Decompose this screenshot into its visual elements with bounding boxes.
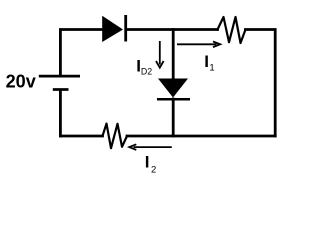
svg-text:D2: D2 [141, 67, 152, 77]
svg-text:2: 2 [151, 164, 156, 175]
svg-text:I: I [204, 52, 209, 71]
svg-text:1: 1 [209, 62, 214, 73]
svg-text:20v: 20v [6, 72, 36, 92]
svg-text:I: I [145, 153, 150, 172]
